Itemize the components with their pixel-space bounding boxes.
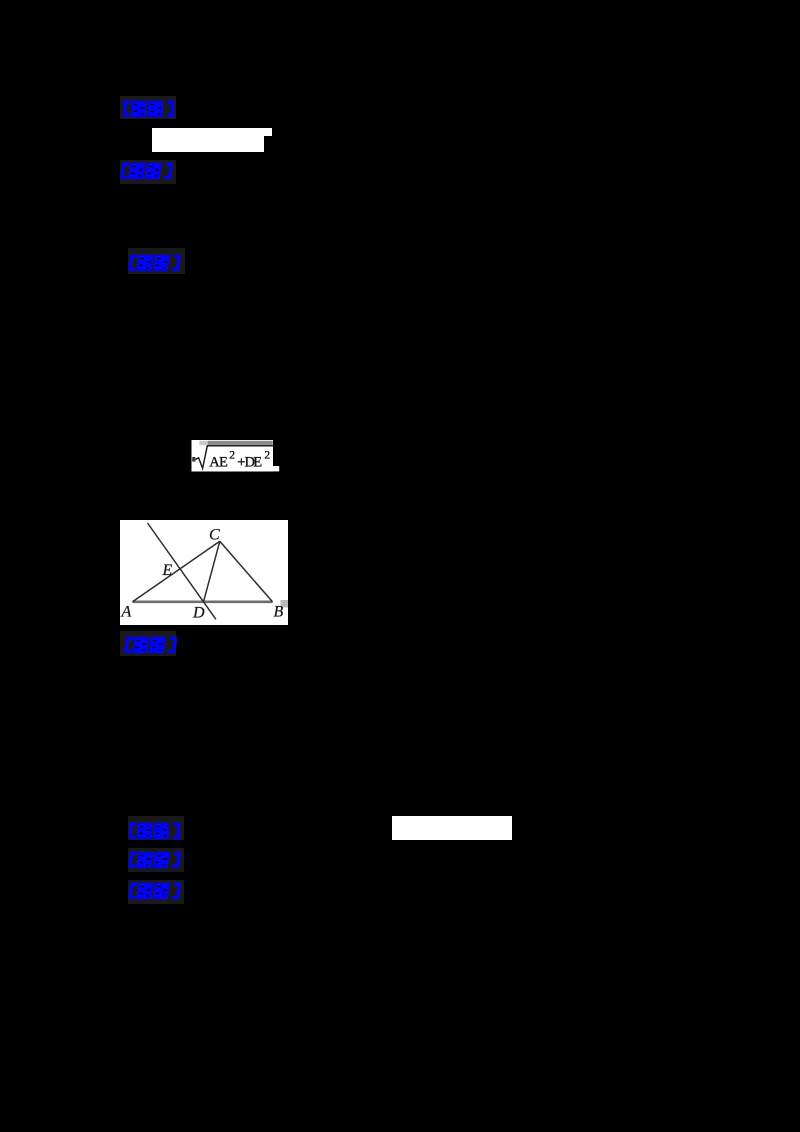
label L2 backdrop <box>120 160 176 184</box>
svg-text:E: E <box>219 455 228 471</box>
label L6 backdrop <box>128 848 185 872</box>
label L3 backdrop <box>128 248 185 274</box>
label L5 【考点】 <box>129 822 181 840</box>
label L4 backdrop <box>120 631 176 656</box>
svg-text:D: D <box>192 604 205 621</box>
wire transversal through E and D <box>147 523 215 619</box>
formula image sqrt(AE^2+DE^2) <box>188 436 284 476</box>
svg-text:C: C <box>209 526 220 543</box>
wire AC <box>132 541 219 602</box>
wire CB <box>219 541 272 602</box>
white answer box (second problem) <box>392 816 512 840</box>
svg-text:2: 2 <box>264 449 270 461</box>
label L3 【解答】 <box>129 254 181 272</box>
svg-text:B: B <box>273 603 283 620</box>
wire CD <box>203 541 219 602</box>
white L-shaped image box <box>152 128 265 152</box>
label L1 【考点】 <box>123 100 175 118</box>
label L7 backdrop <box>128 880 185 904</box>
svg-text:A: A <box>120 603 131 620</box>
wire base AB <box>132 600 272 603</box>
svg-text:E: E <box>161 562 172 579</box>
label L7 【解答】 <box>129 882 181 900</box>
svg-text:2: 2 <box>229 449 235 461</box>
label L6 【分析】 <box>129 851 181 869</box>
label L5 backdrop <box>128 816 185 840</box>
geometry figure box <box>120 520 288 625</box>
label L2 【分析】 <box>121 162 173 180</box>
svg-text:E: E <box>253 455 262 471</box>
label L4 【点评】 <box>125 636 177 654</box>
jpeg gray square near B <box>280 600 288 608</box>
label L1 backdrop (jpeg halo) <box>120 96 176 119</box>
